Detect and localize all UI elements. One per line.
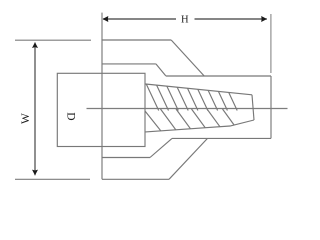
spring hatch upper 3 <box>167 86 178 110</box>
spring hatch upper 7 <box>208 90 218 110</box>
spring hatch lower 1 <box>145 111 161 131</box>
spring cone bottom envelope <box>146 120 255 132</box>
H dimension line right segment <box>195 18 267 20</box>
spring hatch upper 9 <box>229 92 238 110</box>
shell top inner chamfer <box>156 64 166 76</box>
shell bottom inner chamfer <box>150 138 172 157</box>
W arrowhead top <box>32 42 38 48</box>
shell right edge <box>270 76 272 138</box>
spring cone tip edge <box>252 95 254 120</box>
shell left edge <box>101 40 103 180</box>
spring hatch lower 4 <box>192 109 206 128</box>
spring hatch lower 2 <box>161 109 176 130</box>
shell top inner wing line <box>102 63 156 65</box>
spring hatch upper 4 <box>177 87 188 110</box>
H arrowhead right <box>261 16 267 22</box>
shell top edge <box>102 39 171 41</box>
H arrowhead left <box>103 16 109 22</box>
H dimension line left segment <box>103 18 176 20</box>
spring hatch lower 5 <box>207 109 220 127</box>
spring hatch upper 1 <box>146 84 158 110</box>
W extension line top <box>15 39 91 41</box>
svg-text:H: H <box>181 14 189 25</box>
spring hatch upper 8 <box>218 91 227 110</box>
centerline axis <box>87 108 288 110</box>
W extension line bottom <box>15 178 90 180</box>
shell top shoulder <box>166 75 271 77</box>
spring hatch upper 5 <box>188 88 198 110</box>
spring cone top envelope <box>146 84 253 95</box>
shell bottom shoulder <box>172 137 271 139</box>
skirt rectangle <box>57 73 145 146</box>
spring hatch upper 6 <box>198 89 208 110</box>
shell top outer chamfer <box>171 40 204 76</box>
spring hatch lower 3 <box>176 109 191 129</box>
spring hatch lower 6 <box>223 109 235 125</box>
H extension line right <box>270 14 272 73</box>
shell bottom outer chamfer <box>169 138 208 179</box>
W arrowhead bottom <box>32 170 38 176</box>
svg-text:D: D <box>65 112 77 120</box>
shell bottom edge <box>102 178 169 180</box>
H extension line left <box>101 13 103 40</box>
spring hatch upper 2 <box>157 85 169 110</box>
svg-text:W: W <box>20 113 32 124</box>
W dimension line <box>34 43 36 176</box>
shell bottom inner wing line <box>102 157 150 159</box>
